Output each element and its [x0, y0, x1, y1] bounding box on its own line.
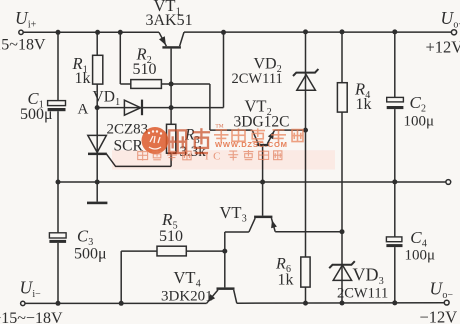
svg-text:3DK201: 3DK201 [161, 289, 213, 305]
svg-text:15~18V: 15~18V [0, 37, 46, 54]
svg-text:100μ: 100μ [404, 113, 435, 129]
svg-text:500μ: 500μ [20, 106, 53, 123]
svg-text:−15~−18V: −15~−18V [0, 310, 63, 324]
svg-text:2CW111: 2CW111 [232, 71, 283, 87]
svg-text:1k: 1k [356, 96, 372, 113]
svg-text:−12V: −12V [420, 307, 458, 324]
svg-text:510: 510 [159, 228, 183, 245]
svg-text:500μ: 500μ [74, 245, 107, 262]
svg-text:510: 510 [133, 61, 157, 78]
svg-text:3AK51: 3AK51 [146, 12, 193, 29]
svg-text:IC: IC [205, 151, 225, 163]
svg-text:3DG12C: 3DG12C [234, 114, 290, 131]
svg-text:+12V: +12V [426, 38, 460, 57]
svg-text:1k: 1k [75, 70, 91, 87]
svg-text:100μ: 100μ [405, 248, 436, 264]
svg-text:WWW.DZSC.COM: WWW.DZSC.COM [215, 140, 288, 149]
svg-text:1k: 1k [278, 272, 294, 289]
svg-text:2CZ83: 2CZ83 [107, 121, 149, 137]
svg-text:A: A [78, 102, 89, 118]
svg-text:TM: TM [215, 123, 223, 129]
svg-text:2CW111: 2CW111 [337, 285, 388, 301]
